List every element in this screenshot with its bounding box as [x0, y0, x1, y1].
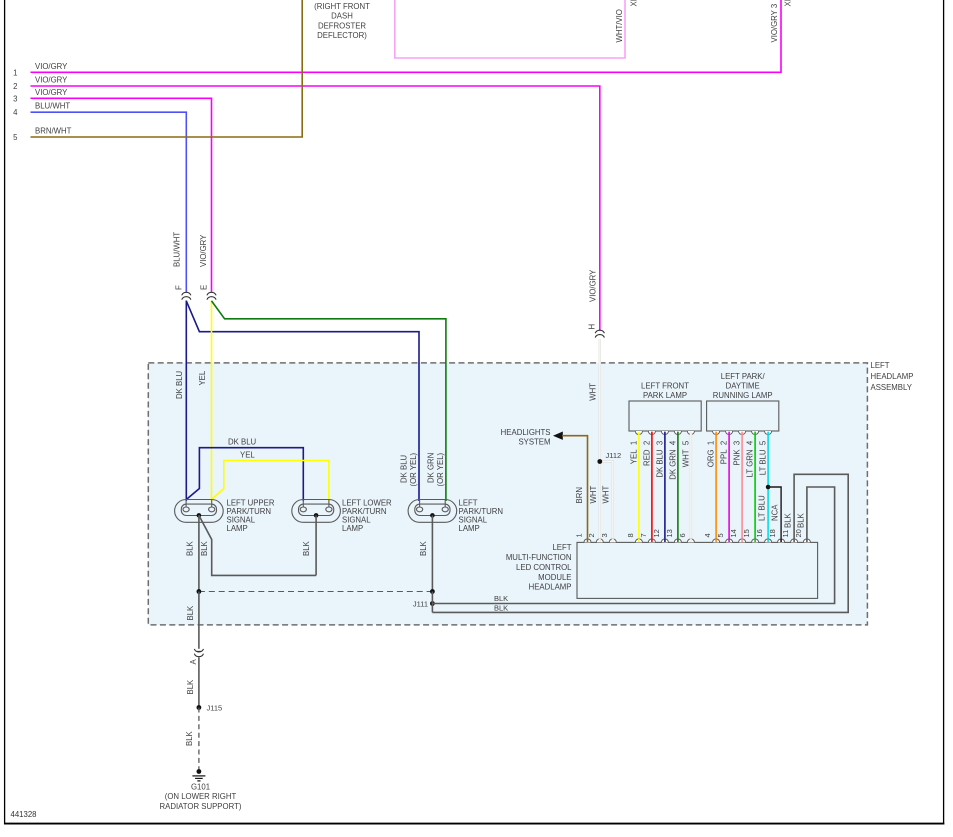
- svg-text:LEFT FRONT: LEFT FRONT: [641, 381, 689, 390]
- svg-text:WHT/VIO: WHT/VIO: [615, 9, 624, 42]
- svg-text:VIO/GRY 3: VIO/GRY 3: [770, 4, 779, 43]
- svg-text:12: 12: [652, 529, 661, 537]
- svg-text:MULTI-FUNCTION: MULTI-FUNCTION: [506, 553, 572, 562]
- wire VIO/GRY circuit 1: [31, 0, 782, 72]
- svg-text:VIO/GRY: VIO/GRY: [35, 76, 68, 85]
- svg-text:PNK 3: PNK 3: [733, 441, 742, 466]
- wire DK BLU from F to left park/turn lamp: [186, 301, 419, 501]
- svg-text:BRN: BRN: [575, 487, 584, 503]
- svg-text:15: 15: [742, 529, 751, 537]
- svg-text:13: 13: [665, 529, 674, 537]
- wire BLK branch upper to lower lamp: [199, 515, 316, 575]
- wire YEL branch to left lower lamp: [212, 461, 329, 502]
- svg-text:WHT: WHT: [589, 486, 598, 504]
- page border: [4, 0, 6, 825]
- svg-text:WHT 5: WHT 5: [681, 440, 690, 467]
- svg-text:16: 16: [755, 529, 764, 537]
- svg-text:BLK: BLK: [494, 603, 508, 612]
- left lower park/turn signal lamp: [292, 500, 341, 523]
- svg-text:DK GRN 4: DK GRN 4: [668, 440, 677, 480]
- svg-text:BLK: BLK: [186, 679, 195, 695]
- svg-text:DEFROSTER: DEFROSTER: [318, 21, 366, 30]
- svg-text:YEL 1: YEL 1: [629, 441, 638, 464]
- wire VIO/GRY circuit 2 to connector H: [31, 86, 600, 331]
- svg-text:11: 11: [781, 530, 790, 538]
- svg-text:MODULE: MODULE: [538, 573, 571, 582]
- wire NCA pin 18: [766, 485, 771, 490]
- svg-text:PPL 2: PPL 2: [720, 441, 729, 464]
- svg-text:WHT: WHT: [602, 486, 611, 504]
- svg-text:RUNNING LAMP: RUNNING LAMP: [713, 391, 773, 400]
- wire DK BLU from F to left upper lamp: [185, 301, 187, 502]
- wire WHT branch to pin 3: [600, 462, 613, 543]
- wire DK BLU branch to left lower lamp: [186, 448, 303, 501]
- svg-text:ASSEMBLY: ASSEMBLY: [871, 383, 913, 392]
- partial component box top (WHT/VIO wire): [395, 0, 625, 58]
- svg-text:J112: J112: [606, 451, 622, 460]
- svg-text:4: 4: [13, 108, 18, 117]
- svg-text:NCA: NCA: [771, 504, 780, 521]
- junction J111: [430, 589, 435, 594]
- wire PNK lamp pin 3 to module pin 14: [739, 431, 746, 434]
- wire BRN to module pin 1: [562, 436, 588, 542]
- svg-text:DK GRN: DK GRN: [426, 453, 435, 483]
- svg-text:DASH: DASH: [331, 12, 353, 21]
- svg-text:DK BLU: DK BLU: [228, 438, 257, 447]
- splice dashed link: [199, 591, 433, 593]
- svg-text:LED CONTROL: LED CONTROL: [516, 563, 572, 572]
- wire BLK connector A to J115: [198, 657, 200, 707]
- wire DK GRN lamp pin 4 to module pin 13: [674, 431, 681, 434]
- svg-text:VIO/GRY: VIO/GRY: [35, 62, 68, 71]
- inline connector A: [194, 649, 203, 657]
- svg-text:LEFT: LEFT: [871, 361, 890, 370]
- svg-text:BLU/WHT: BLU/WHT: [173, 232, 182, 267]
- svg-text:14: 14: [729, 529, 738, 537]
- inline connector H: [595, 330, 604, 337]
- svg-text:LEFT PARK/: LEFT PARK/: [721, 372, 766, 381]
- svg-text:BLK: BLK: [185, 730, 194, 746]
- svg-text:LAMP: LAMP: [342, 524, 363, 533]
- svg-text:BRN/WHT: BRN/WHT: [35, 127, 72, 136]
- wire DK BLU lamp pin 3 to module pin 12: [661, 431, 668, 434]
- svg-text:BLK: BLK: [186, 605, 195, 621]
- wire BRN/WHT circuit 5 to defroster deflector: [31, 0, 303, 137]
- wire BLK left park/turn lamp down to J111: [431, 515, 433, 591]
- svg-text:BLK: BLK: [494, 594, 508, 603]
- wire BLK J115 to G101 dashed: [198, 708, 200, 770]
- svg-text:HEADLAMP: HEADLAMP: [871, 372, 914, 381]
- wire DK GRN from E to left park/turn lamp: [212, 301, 446, 501]
- svg-text:DK BLU 3: DK BLU 3: [655, 441, 664, 478]
- svg-text:1: 1: [13, 68, 17, 77]
- wire LT BLU lamp pin 5 to module pin 16: [765, 431, 772, 434]
- left headlamp assembly dashed box: [148, 363, 867, 625]
- svg-text:1: 1: [575, 533, 584, 537]
- svg-text:441328: 441328: [11, 810, 37, 819]
- svg-text:YEL: YEL: [240, 451, 255, 460]
- wire RED lamp pin 2 to module pin 7: [648, 431, 655, 434]
- wire BLK pin11 loop: [432, 474, 848, 612]
- svg-text:RED 2: RED 2: [642, 441, 651, 466]
- svg-text:DAYTIME: DAYTIME: [726, 381, 760, 390]
- svg-text:LEFT: LEFT: [552, 543, 571, 552]
- wire YEL from E to left upper lamp: [211, 301, 213, 502]
- svg-text:VIO/GRY: VIO/GRY: [35, 88, 68, 97]
- svg-text:H: H: [588, 324, 597, 330]
- module pin bumps: [584, 539, 591, 542]
- svg-text:(ON LOWER RIGHT: (ON LOWER RIGHT: [165, 792, 237, 801]
- svg-text:20: 20: [794, 529, 803, 537]
- inline connector E: [207, 292, 216, 299]
- inline connector F: [182, 292, 191, 299]
- svg-text:BLK: BLK: [185, 540, 194, 556]
- svg-text:J115: J115: [207, 704, 223, 713]
- splice J115: [197, 705, 202, 710]
- svg-text:5: 5: [716, 533, 725, 537]
- wire LT GRN lamp pin 4 to module pin 15: [752, 431, 759, 434]
- wire BLK left upper lamp down: [198, 515, 200, 591]
- ground G101: [197, 769, 202, 774]
- svg-text:VIO/GRY: VIO/GRY: [199, 234, 208, 267]
- svg-text:XI: XI: [630, 0, 639, 7]
- svg-text:ORG 1: ORG 1: [707, 441, 716, 467]
- svg-text:(OR YEL): (OR YEL): [409, 452, 418, 486]
- junction dot: [197, 589, 202, 594]
- wire BLK down to connector A: [198, 592, 200, 649]
- left park/turn signal lamp: [408, 500, 457, 523]
- svg-text:DK BLU: DK BLU: [399, 454, 408, 483]
- svg-text:18: 18: [768, 529, 777, 537]
- svg-text:2: 2: [587, 533, 596, 537]
- wire ORG lamp pin 1 to module pin 4: [713, 431, 720, 434]
- svg-text:XI: XI: [784, 0, 793, 7]
- svg-text:J111: J111: [413, 599, 428, 608]
- svg-text:LT BLU 5: LT BLU 5: [759, 440, 768, 475]
- svg-text:LT GRN 4: LT GRN 4: [746, 440, 755, 477]
- svg-text:G101: G101: [191, 783, 210, 792]
- svg-text:BLK: BLK: [419, 540, 428, 556]
- wire BLK pin20 loop: [432, 487, 834, 604]
- svg-text:BLU/WHT: BLU/WHT: [35, 102, 70, 111]
- wire WHT lamp pin 5 to module pin 6: [687, 431, 694, 434]
- svg-text:BLK: BLK: [796, 512, 805, 528]
- svg-text:SYSTEM: SYSTEM: [518, 438, 550, 447]
- svg-text:5: 5: [13, 133, 18, 142]
- svg-text:E: E: [200, 285, 209, 290]
- svg-text:F: F: [175, 285, 184, 290]
- svg-text:LAMP: LAMP: [227, 524, 248, 533]
- svg-text:BLK: BLK: [784, 512, 793, 528]
- svg-text:(RIGHT FRONT: (RIGHT FRONT: [314, 2, 370, 11]
- svg-text:(OR YEL): (OR YEL): [436, 452, 445, 486]
- wire BLK left lower lamp down: [315, 515, 317, 575]
- svg-text:PARK LAMP: PARK LAMP: [643, 391, 687, 400]
- svg-text:LT BLU: LT BLU: [758, 495, 767, 521]
- svg-text:3: 3: [13, 94, 17, 103]
- svg-text:RADIATOR SUPPORT): RADIATOR SUPPORT): [160, 802, 242, 811]
- svg-text:BLK: BLK: [200, 540, 209, 556]
- splice J112: [597, 459, 602, 464]
- svg-text:3: 3: [600, 533, 609, 537]
- wire PPL lamp pin 2 to module pin 5: [726, 431, 733, 434]
- svg-text:WHT: WHT: [589, 383, 598, 401]
- svg-text:HEADLAMP: HEADLAMP: [529, 583, 572, 592]
- wire YEL lamp pin 1 to module pin 8: [635, 431, 642, 434]
- svg-text:A: A: [189, 659, 198, 665]
- svg-text:4: 4: [703, 533, 712, 537]
- wire BLU/WHT circuit 4 to connector F: [31, 112, 187, 292]
- svg-text:2: 2: [13, 82, 17, 91]
- svg-text:7: 7: [639, 533, 648, 537]
- svg-text:HEADLIGHTS: HEADLIGHTS: [501, 428, 551, 437]
- wire VIO/GRY circuit 3 to connector E: [31, 98, 212, 292]
- svg-text:DEFLECTOR): DEFLECTOR): [317, 31, 367, 40]
- svg-text:6: 6: [678, 533, 687, 537]
- svg-text:DK BLU: DK BLU: [175, 370, 184, 399]
- svg-text:YEL: YEL: [198, 370, 207, 385]
- wire WHT from H to module pin 2: [599, 339, 601, 542]
- svg-text:8: 8: [626, 533, 635, 537]
- svg-text:VIO/GRY: VIO/GRY: [589, 269, 598, 302]
- svg-text:LAMP: LAMP: [459, 524, 480, 533]
- left upper park/turn signal lamp: [175, 500, 224, 523]
- svg-text:BLK: BLK: [302, 540, 311, 556]
